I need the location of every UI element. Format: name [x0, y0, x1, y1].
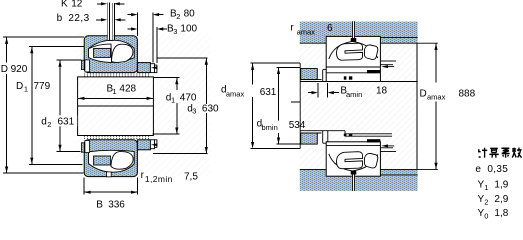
svg-text:2: 2: [47, 120, 51, 129]
svg-text:e: e: [475, 164, 481, 175]
svg-text:amin: amin: [346, 90, 362, 99]
svg-text:1,8: 1,8: [494, 208, 508, 219]
svg-text:100: 100: [180, 24, 197, 35]
svg-text:0,35: 0,35: [487, 164, 508, 175]
svg-text:920: 920: [11, 64, 28, 75]
svg-text:D: D: [420, 89, 427, 100]
svg-text:7,5: 7,5: [184, 171, 198, 182]
svg-text:1,9: 1,9: [494, 180, 508, 191]
svg-text:2: 2: [484, 198, 488, 207]
svg-text:d: d: [41, 117, 47, 128]
svg-text:2: 2: [176, 12, 180, 21]
svg-text:3: 3: [192, 107, 196, 116]
svg-text:amax: amax: [226, 89, 245, 98]
svg-text:1: 1: [484, 183, 488, 192]
svg-text:3: 3: [173, 27, 177, 36]
svg-text:D: D: [16, 81, 23, 92]
svg-text:b: b: [57, 13, 63, 24]
svg-text:1: 1: [112, 87, 116, 96]
svg-text:amax: amax: [297, 27, 316, 36]
svg-text:80: 80: [184, 8, 196, 19]
svg-text:2,9: 2,9: [494, 194, 508, 205]
svg-text:B: B: [96, 200, 103, 211]
svg-text:1,2min: 1,2min: [145, 174, 173, 184]
svg-text:631: 631: [58, 117, 75, 128]
svg-text:K: K: [61, 0, 68, 10]
svg-text:779: 779: [34, 81, 51, 92]
svg-text:1: 1: [171, 96, 175, 105]
svg-text:888: 888: [459, 88, 476, 99]
svg-text:1: 1: [24, 84, 28, 93]
svg-text:18: 18: [376, 85, 388, 96]
svg-text:amax: amax: [427, 92, 446, 101]
svg-text:631: 631: [260, 87, 277, 98]
svg-text:630: 630: [202, 103, 219, 114]
svg-text:6: 6: [327, 23, 333, 34]
svg-text:428: 428: [119, 84, 136, 95]
svg-text:bmin: bmin: [262, 123, 278, 132]
svg-text:534: 534: [289, 120, 306, 131]
svg-text:470: 470: [180, 92, 197, 103]
svg-text:12: 12: [71, 0, 83, 10]
svg-text:r: r: [290, 23, 294, 34]
svg-text:22,3: 22,3: [68, 13, 89, 24]
svg-text:336: 336: [108, 200, 125, 211]
svg-text:D: D: [1, 64, 8, 75]
svg-text:0: 0: [484, 212, 488, 221]
